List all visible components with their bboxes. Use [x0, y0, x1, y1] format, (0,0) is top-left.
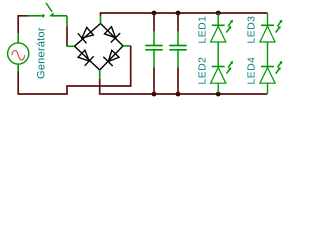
wire bottom rail	[100, 79, 268, 94]
wire switch down to bridge left	[66, 27, 68, 47]
bridge diode top-right	[101, 24, 124, 46]
bridge diode top-left	[75, 24, 101, 47]
junction bottom C1	[152, 92, 157, 97]
svg-text:Generátor: Generátor	[36, 27, 48, 79]
bridge diode bottom-left	[75, 46, 100, 70]
wire stub bridge top	[100, 15, 102, 24]
wire stub to bridge left corner	[67, 45, 75, 47]
wire C1 bottom leg	[153, 68, 155, 95]
wire stub bridge right corner	[123, 45, 131, 47]
wire switch output down	[66, 16, 68, 27]
wire C2 top leg	[177, 13, 179, 32]
switch S1	[28, 3, 68, 18]
wire C1 top leg	[153, 13, 155, 32]
AC source G1 (Generátor)	[8, 33, 29, 72]
wire generator top to switch	[18, 16, 28, 33]
wire stub bridge bottom	[99, 70, 101, 80]
svg-text:LED2: LED2	[198, 57, 209, 85]
wire top rail	[101, 13, 268, 16]
junction top LED1	[216, 11, 221, 16]
junction top C2	[176, 11, 181, 16]
LED LED2	[211, 61, 233, 93]
junction bottom C2	[176, 92, 181, 97]
junction bottom LED2	[216, 92, 221, 97]
svg-text:LED3: LED3	[247, 16, 258, 44]
wire AC return: right corner down, left, down, to generator bottom	[18, 46, 131, 94]
wire C2 bottom leg	[177, 68, 179, 95]
svg-text:LED1: LED1	[198, 16, 209, 44]
capacitor C1	[145, 31, 162, 68]
capacitor C2	[169, 31, 186, 68]
LED LED1	[211, 13, 233, 67]
junction top C1	[152, 11, 157, 16]
LED LED3	[260, 13, 282, 67]
svg-text:LED4: LED4	[247, 57, 258, 85]
LED LED4	[260, 61, 282, 94]
bridge diode bottom-right	[100, 46, 123, 70]
